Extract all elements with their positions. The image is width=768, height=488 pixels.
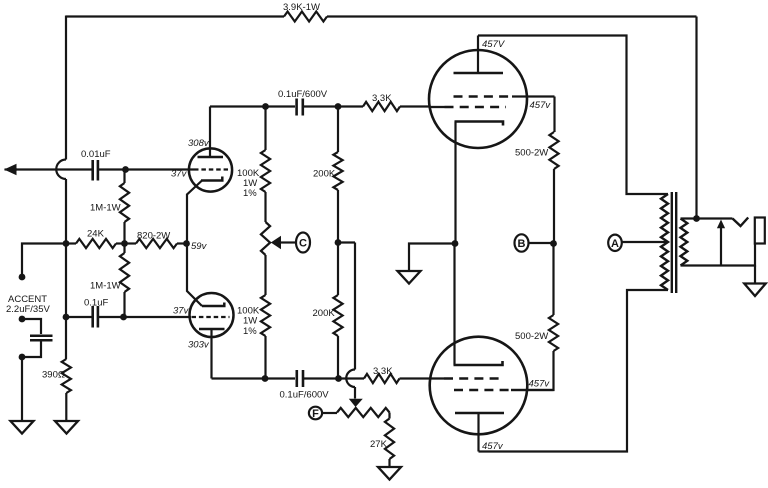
- node accent terminal lower: [19, 316, 26, 323]
- wire V3 plate to primary top: [478, 36, 668, 195]
- svg-text:0.1uF/600V: 0.1uF/600V: [278, 89, 328, 100]
- tube V4 cathode: [454, 361, 503, 365]
- svg-text:200K: 200K: [313, 169, 336, 180]
- node 59v cathode junction: [183, 240, 207, 252]
- ground output jack: [744, 284, 766, 297]
- resistor 1M-1W lower: [90, 244, 129, 318]
- tube V4 cathode lead: [453, 244, 455, 366]
- capacitor 0.01uF: [81, 149, 111, 181]
- node output cathodes junction: [452, 240, 459, 247]
- resistor 27K: [370, 419, 394, 460]
- ground under accent cap: [11, 421, 34, 434]
- tube V3 cathode lead: [454, 122, 456, 244]
- wire feedback right vertical: [695, 17, 697, 219]
- wire 3.3K to V4 grid: [400, 377, 431, 379]
- wire left feedback vertical upper: [65, 16, 67, 160]
- svg-text:37v: 37v: [171, 169, 188, 180]
- resistor 500-2W upper: [515, 132, 559, 169]
- svg-text:3.9K-1W: 3.9K-1W: [283, 2, 320, 13]
- tube V4 control grid: [430, 377, 504, 379]
- svg-text:24K: 24K: [87, 229, 105, 240]
- wire 390R to ground: [65, 393, 67, 421]
- resistor 500-2W lower: [515, 315, 558, 351]
- resistor 24K: [66, 229, 125, 249]
- wire 200K top to 3.3K: [338, 105, 363, 107]
- svg-text:B: B: [518, 238, 526, 250]
- wire 0.1uF cap to V2 grid: [99, 316, 192, 318]
- svg-text:3.3K: 3.3K: [373, 366, 393, 377]
- node 24K row left: [63, 240, 70, 247]
- svg-text:390Ω: 390Ω: [42, 370, 65, 381]
- wire pot body to 27K: [388, 413, 390, 419]
- svg-text:457v: 457v: [529, 379, 551, 390]
- pot F wiper arrow: [349, 399, 363, 407]
- wire secondary bottom lead: [681, 244, 756, 266]
- svg-text:1M-1W: 1M-1W: [90, 281, 121, 292]
- pot C wiper arrow: [271, 236, 296, 249]
- triode V2 envelope: [190, 293, 234, 337]
- resistor 3.3K top: [363, 93, 400, 111]
- node 100K top: [262, 103, 269, 110]
- wire accent to ground: [21, 357, 23, 421]
- label 457v V4 plate: [482, 441, 504, 452]
- wire V3 screen to resistor: [553, 97, 555, 133]
- node feedback takeoff: [693, 215, 700, 222]
- transformer primary winding: [661, 194, 668, 290]
- jack tip contact: [733, 218, 749, 227]
- resistor 3.9K-1W: [283, 2, 327, 22]
- test point B: [515, 234, 529, 251]
- svg-text:1M-1W: 1M-1W: [90, 203, 121, 214]
- test point F: [309, 407, 322, 420]
- svg-text:3.3K: 3.3K: [372, 93, 392, 104]
- label 457v V3 screen: [530, 100, 552, 111]
- resistor 3.3K bottom: [364, 366, 400, 383]
- label 308v V1 plate: [188, 138, 210, 149]
- tube V4 screen grid: [454, 389, 554, 392]
- node accent ground stub: [19, 354, 26, 361]
- svg-text:59v: 59v: [191, 241, 208, 252]
- test point A: [608, 235, 622, 251]
- wire 200K mid to pot F line: [338, 241, 355, 243]
- wire V1 plate to 100K top: [210, 105, 266, 107]
- svg-text:200K: 200K: [313, 308, 336, 319]
- node 200K mid: [335, 239, 342, 246]
- wire cap to 200K top: [304, 105, 338, 107]
- wire left feedback vertical lower: [65, 179, 67, 359]
- transformer core: [672, 192, 676, 293]
- resistor 820-2W: [125, 231, 188, 249]
- label 457v V4 screen: [529, 379, 551, 390]
- svg-text:1W: 1W: [243, 316, 257, 327]
- svg-text:820-2W: 820-2W: [137, 231, 170, 242]
- wire accent cap top lead: [22, 319, 41, 334]
- tube V3 screen grid: [454, 95, 555, 98]
- resistor 200K upper: [313, 107, 343, 243]
- resistor 100K-1W-1% upper: [237, 107, 270, 223]
- node B junction: [550, 240, 557, 247]
- svg-text:F: F: [312, 408, 319, 420]
- wire top-right feedback run: [327, 15, 697, 17]
- wire 27K to ground: [388, 459, 390, 467]
- svg-text:500-2W: 500-2W: [515, 148, 548, 159]
- svg-text:37v: 37v: [173, 306, 190, 317]
- svg-text:0.1uF: 0.1uF: [84, 298, 108, 309]
- wire pot F vertical lower: [354, 387, 356, 399]
- triode V2 cathode lead: [187, 244, 202, 307]
- wire B to junction: [529, 242, 554, 244]
- wire V2 plate row to cap: [265, 377, 295, 379]
- resistor 200K lower: [313, 243, 343, 379]
- wire 3.3K to V3 grid: [400, 105, 430, 107]
- triode V1 cathode lead: [187, 181, 202, 244]
- node 200K bottom: [335, 375, 342, 382]
- triode V1 grid: [194, 168, 228, 170]
- node 0.1uF row left: [63, 314, 70, 321]
- tube V3 plate: [454, 36, 504, 74]
- tube V4 envelope: [430, 337, 528, 435]
- input arrow: [4, 164, 17, 175]
- svg-text:1%: 1%: [243, 326, 257, 337]
- wire 200K bottom to 3.3K: [339, 377, 365, 379]
- tube V4 plate: [455, 413, 504, 452]
- label 37v V1 grid: [171, 169, 188, 180]
- transformer secondary winding: [681, 219, 688, 266]
- capacitor 0.1uF: [84, 298, 108, 328]
- triode V1 plate: [198, 107, 224, 158]
- wire accent stub from 24K node: [22, 244, 66, 278]
- wire jack to ground: [754, 266, 756, 284]
- wire top-left feedback run: [66, 15, 284, 17]
- ground under 27K: [378, 467, 401, 480]
- capacitor 0.1uF/600V top: [278, 89, 328, 116]
- wire crossover hop at bottom row: [346, 370, 355, 388]
- node V1 grid junction: [122, 166, 129, 173]
- wire F to pot body: [322, 412, 337, 414]
- triode V2 cathode: [202, 303, 224, 307]
- svg-text:1%: 1%: [243, 188, 257, 199]
- capacitor 2.2uF accent: [30, 336, 53, 340]
- svg-text:A: A: [611, 238, 619, 250]
- node accent terminal upper: [19, 274, 26, 281]
- wire to coupling cap top: [266, 105, 295, 107]
- label ACCENT: [6, 294, 50, 315]
- label 457V V3 plate: [482, 39, 506, 50]
- triode V1 envelope: [189, 148, 232, 191]
- capacitor 0.1uF/600V bottom: [280, 370, 330, 401]
- test point C: [296, 233, 310, 253]
- wire pot F vertical upper: [354, 243, 356, 370]
- node 200K top: [335, 103, 342, 110]
- wire V2 plate to 100K bottom: [212, 377, 266, 379]
- resistor 390R: [42, 359, 71, 393]
- svg-text:457v: 457v: [482, 441, 504, 452]
- wire accent cap bottom lead: [22, 341, 41, 357]
- wire cap to 200K bottom: [304, 377, 339, 379]
- node 1M center junction: [121, 240, 128, 247]
- svg-text:0.1uF/600V: 0.1uF/600V: [280, 390, 330, 401]
- wire to V4 screen: [511, 351, 554, 390]
- potentiometer element C: [261, 222, 270, 255]
- wire secondary top lead: [681, 217, 733, 219]
- svg-text:457v: 457v: [530, 100, 552, 111]
- triode V2 plate: [199, 329, 225, 379]
- wire input to coupling cap: [16, 168, 92, 170]
- label 37v V2 grid: [173, 306, 190, 317]
- svg-text:2.2uF/35V: 2.2uF/35V: [6, 304, 50, 315]
- node 100K bottom: [262, 375, 269, 382]
- wire V4 plate to primary bottom: [479, 290, 669, 452]
- wire B node down: [552, 244, 554, 316]
- jack insertion arrow: [717, 220, 725, 267]
- tube V3 cathode: [455, 122, 504, 126]
- svg-text:303v: 303v: [188, 340, 210, 351]
- jack sleeve: [755, 218, 765, 244]
- wire A to primary center tap: [622, 241, 668, 243]
- ground output cathodes: [398, 271, 421, 284]
- resistor 1M-1W upper: [90, 170, 129, 244]
- svg-text:308v: 308v: [188, 138, 210, 149]
- ground under 390R: [55, 421, 78, 434]
- node V2 grid junction: [120, 314, 127, 321]
- tube V3 control grid: [430, 106, 506, 108]
- svg-text:457V: 457V: [482, 39, 506, 50]
- svg-text:27K: 27K: [370, 439, 388, 450]
- wire to B node: [553, 169, 555, 244]
- svg-text:500-2W: 500-2W: [515, 331, 548, 342]
- svg-text:C: C: [299, 238, 307, 250]
- label 303v V2 plate: [188, 340, 210, 351]
- resistor 100K-1W-1% lower: [237, 255, 270, 379]
- triode V1 cathode: [201, 177, 222, 181]
- wire cap to V1 grid: [99, 168, 195, 170]
- svg-text:0.01uF: 0.01uF: [81, 149, 111, 160]
- wire crossover hop at input line: [56, 160, 66, 180]
- potentiometer element F: [337, 408, 390, 417]
- wire left vert to 0.1uF cap: [66, 316, 92, 318]
- tube V3 envelope: [429, 50, 527, 148]
- triode V2 grid: [192, 316, 230, 318]
- wire cathodes to ground: [409, 244, 455, 272]
